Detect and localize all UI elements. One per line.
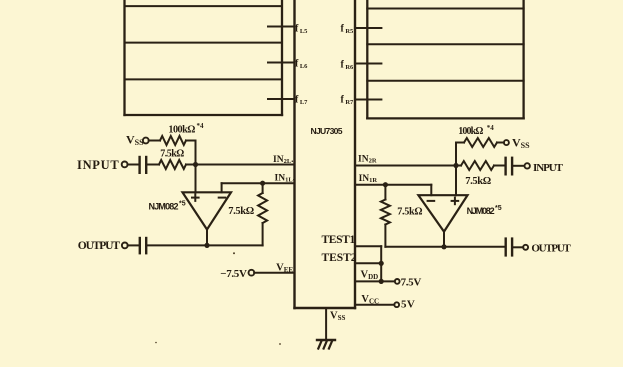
svg-text:7.5kΩ: 7.5kΩ bbox=[465, 176, 491, 187]
svg-text:INPUT: INPUT bbox=[533, 162, 564, 174]
svg-text:TEST2: TEST2 bbox=[322, 252, 357, 264]
svg-text:*4: *4 bbox=[197, 122, 205, 130]
svg-text:*5: *5 bbox=[495, 205, 502, 212]
svg-text:IN2L.: IN2L. bbox=[273, 155, 294, 165]
svg-text:OUTPUT: OUTPUT bbox=[78, 240, 121, 252]
svg-text:NJM082: NJM082 bbox=[149, 201, 179, 211]
svg-text:100kΩ: 100kΩ bbox=[168, 124, 195, 135]
svg-text:NJM082: NJM082 bbox=[467, 206, 495, 216]
svg-text:7.5kΩ: 7.5kΩ bbox=[228, 206, 254, 217]
svg-text:NJU7305: NJU7305 bbox=[311, 126, 343, 136]
svg-text:OUTPUT: OUTPUT bbox=[531, 243, 571, 255]
svg-text:7.5kΩ: 7.5kΩ bbox=[397, 207, 422, 218]
svg-text:100kΩ: 100kΩ bbox=[458, 126, 483, 137]
svg-text:*4: *4 bbox=[487, 124, 495, 132]
svg-text:INPUT: INPUT bbox=[77, 158, 119, 172]
svg-text:−7.5V: −7.5V bbox=[220, 268, 247, 280]
svg-text:5V: 5V bbox=[401, 299, 415, 311]
svg-text:7.5V: 7.5V bbox=[401, 277, 422, 289]
svg-text:7.5kΩ: 7.5kΩ bbox=[160, 149, 184, 160]
svg-text:TEST1: TEST1 bbox=[322, 234, 356, 246]
svg-text:IN1L.: IN1L. bbox=[275, 174, 296, 184]
svg-text:*5: *5 bbox=[179, 201, 186, 208]
